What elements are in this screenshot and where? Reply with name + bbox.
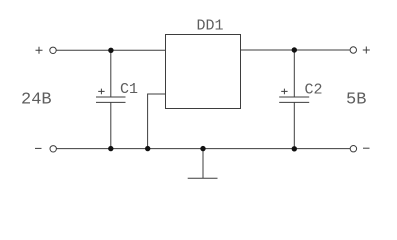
svg-text:5В: 5В (346, 91, 366, 110)
svg-text:DD1: DD1 (197, 17, 224, 34)
svg-text:24В: 24В (21, 91, 52, 110)
svg-text:C1: C1 (120, 81, 138, 98)
svg-text:C2: C2 (305, 82, 323, 99)
